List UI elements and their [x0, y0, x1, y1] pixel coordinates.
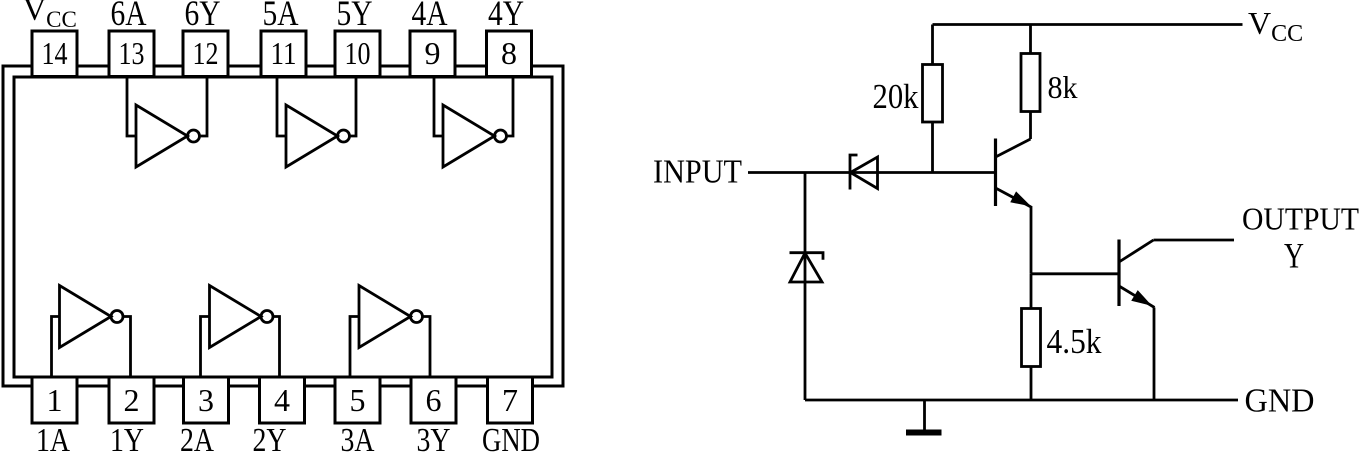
inverter U5 (pins 11-10) triangle	[286, 105, 338, 167]
inverter U2 (pins 3-4) triangle	[210, 286, 262, 348]
transistor Q1 base bar	[994, 139, 997, 207]
inverter U1 (pins 1-2): input wire from pin	[52, 317, 60, 378]
clamp diode D2 triangle	[790, 253, 822, 282]
transistor Q2 base bar	[1117, 240, 1120, 307]
ground symbol	[906, 400, 942, 433]
inverter U6 (pins 13-12): input wire from pin	[127, 77, 136, 136]
svg-text:VCC: VCC	[1248, 5, 1303, 47]
svg-text:OUTPUT: OUTPUT	[1242, 201, 1359, 237]
inverter U1 (pins 1-2) triangle	[60, 286, 112, 348]
inverter U6 (pins 13-12) bubble	[188, 130, 200, 142]
svg-text:3Y: 3Y	[417, 422, 451, 453]
pin 9 box (top row)	[410, 31, 455, 77]
inverter U2 (pins 3-4) bubble	[261, 311, 273, 323]
R3 bottom wire to ground rail	[1030, 367, 1033, 401]
svg-text:1A: 1A	[36, 422, 70, 453]
pin 14 box (top row)	[32, 31, 77, 77]
inverter U1 (pins 1-2) bubble	[111, 311, 123, 323]
svg-text:2Y: 2Y	[253, 422, 287, 453]
IC package inner outline	[14, 77, 552, 377]
pin 12 box (top row)	[183, 31, 228, 77]
svg-text:GND: GND	[482, 422, 540, 453]
diode D1 (series input diode) cathode bar	[850, 155, 858, 190]
pin 2 box (bottom row)	[109, 377, 154, 423]
pin 10 box (top row)	[335, 31, 380, 77]
svg-text:VCC: VCC	[23, 0, 77, 32]
svg-text:9: 9	[425, 35, 441, 71]
svg-text:2: 2	[124, 382, 140, 418]
inverter U5 (pins 11-10) output wire to pin	[350, 77, 357, 136]
Q2 collector diagonal	[1119, 240, 1154, 262]
inverter U3 (pins 5-6) triangle	[359, 286, 411, 348]
svg-text:8: 8	[501, 35, 517, 71]
svg-text:7: 7	[502, 382, 518, 418]
R1 top wire to VCC rail	[931, 25, 934, 65]
inverter U2 (pins 3-4): input wire from pin	[201, 317, 210, 378]
pin 8 box (top row)	[487, 31, 532, 77]
diode D1 triangle	[851, 157, 878, 189]
R1 bottom wire to input line	[931, 122, 934, 173]
svg-text:3A: 3A	[341, 422, 375, 453]
svg-text:3: 3	[198, 382, 214, 418]
resistor R2 8k body	[1021, 54, 1040, 112]
IC package outer outline	[3, 66, 563, 386]
pin 4 box (bottom row)	[260, 377, 305, 423]
inverter U6 (pins 13-12) output wire to pin	[200, 77, 208, 136]
pin 5 box (bottom row)	[335, 377, 380, 423]
svg-text:13: 13	[119, 35, 145, 71]
svg-text:INPUT: INPUT	[653, 154, 742, 191]
inverter U3 (pins 5-6): input wire from pin	[350, 317, 359, 378]
svg-text:GND: GND	[1245, 383, 1315, 420]
pin 6 box (bottom row)	[411, 377, 456, 423]
wire from input node down to clamp diode and ground rail	[804, 173, 807, 401]
inverter U3 (pins 5-6) output wire to pin	[423, 317, 431, 378]
inverter U2 (pins 3-4) output wire to pin	[273, 317, 280, 378]
svg-text:1Y: 1Y	[110, 422, 144, 453]
svg-text:5A: 5A	[263, 0, 299, 33]
inverter U1 (pins 1-2) output wire to pin	[123, 317, 131, 378]
ground rail wire	[805, 399, 1238, 402]
pin 11 box (top row)	[261, 31, 306, 77]
svg-text:4.5k: 4.5k	[1047, 322, 1102, 361]
svg-text:12: 12	[193, 35, 219, 71]
inverter U4 (pins 9-8) bubble	[495, 130, 507, 142]
pin 1 box (bottom row)	[32, 377, 77, 423]
R2 bottom wire to Q1 collector	[1029, 112, 1032, 140]
resistor R3 4.5k body	[1022, 309, 1041, 367]
pin 13 box (top row)	[109, 31, 154, 77]
svg-text:6A: 6A	[111, 0, 147, 33]
inverter U4 (pins 9-8) triangle	[443, 105, 495, 167]
svg-text:20k: 20k	[873, 77, 919, 116]
resistor R1 20k body	[923, 65, 943, 123]
svg-text:4Y: 4Y	[488, 0, 524, 33]
svg-text:6Y: 6Y	[185, 0, 221, 33]
Q1 emitter wire down to node	[1030, 206, 1033, 274]
R3 top wire	[1030, 274, 1033, 309]
svg-text:2A: 2A	[180, 422, 214, 453]
svg-text:6: 6	[426, 382, 442, 418]
svg-text:4: 4	[274, 382, 290, 418]
inverter U6 (pins 13-12) triangle	[136, 105, 188, 167]
Q2 emitter wire down to ground rail	[1153, 308, 1156, 401]
inverter U4 (pins 9-8) output wire to pin	[507, 77, 514, 136]
svg-text:10: 10	[345, 35, 371, 71]
VCC rail wire	[933, 23, 1243, 26]
inverter U5 (pins 11-10) bubble	[338, 130, 350, 142]
svg-text:5: 5	[350, 382, 366, 418]
svg-text:4A: 4A	[412, 0, 448, 33]
svg-text:14: 14	[42, 35, 68, 71]
svg-text:1: 1	[47, 382, 63, 418]
inverter U5 (pins 11-10): input wire from pin	[277, 77, 286, 136]
svg-text:5Y: 5Y	[337, 0, 373, 33]
Q2 collector wire to OUTPUT	[1154, 239, 1235, 242]
Q1 emitter diagonal with arrow	[996, 188, 1032, 207]
svg-text:11: 11	[271, 35, 297, 71]
inverter U3 (pins 5-6) bubble	[411, 311, 423, 323]
inverter U4 (pins 9-8): input wire from pin	[434, 77, 443, 136]
pin 7 box (bottom row)	[488, 377, 533, 423]
clamp diode D2 cathode bar with tick	[790, 253, 824, 260]
R2 top wire to VCC rail	[1029, 25, 1032, 54]
pin 3 box (bottom row)	[184, 377, 229, 423]
Q1 collector diagonal	[996, 139, 1031, 157]
svg-text:Y: Y	[1284, 236, 1304, 276]
svg-text:8k: 8k	[1048, 69, 1078, 105]
wire from Q1 emitter node to Q2 base	[1031, 272, 1119, 275]
input wire	[748, 171, 996, 174]
Q2 emitter diagonal with arrow	[1119, 286, 1155, 308]
